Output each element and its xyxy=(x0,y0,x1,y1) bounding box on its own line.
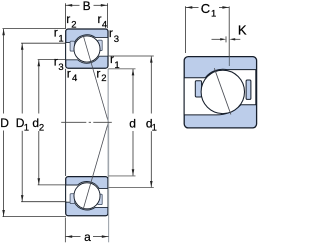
right face line (gray) xyxy=(107,69,109,176)
right view bearing block xyxy=(184,57,256,128)
dimension d xyxy=(108,69,135,176)
cage bar right xyxy=(98,40,103,50)
dimension B xyxy=(65,3,107,28)
svg-text:3: 3 xyxy=(114,34,119,45)
dimension d2 xyxy=(38,60,66,185)
svg-text:r: r xyxy=(67,66,71,80)
svg-text:4: 4 xyxy=(102,20,107,31)
right view cage bar left xyxy=(195,81,201,97)
svg-text:K: K xyxy=(238,22,247,37)
right view ball diagonal xyxy=(214,68,231,114)
svg-text:1: 1 xyxy=(58,33,63,44)
svg-text:d: d xyxy=(129,116,136,130)
dimension K xyxy=(212,36,241,42)
svg-text:4: 4 xyxy=(72,73,77,84)
svg-text:r: r xyxy=(98,12,102,26)
cage bar left xyxy=(70,41,75,51)
svg-text:3: 3 xyxy=(58,62,63,73)
dimension D xyxy=(3,29,67,217)
svg-text:r: r xyxy=(66,12,70,26)
svg-text:2: 2 xyxy=(71,20,76,31)
outer+inner ring block xyxy=(66,29,108,68)
svg-text:1: 1 xyxy=(211,9,216,20)
dimension C1 xyxy=(186,6,230,56)
right view cage bar right xyxy=(246,80,251,99)
svg-text:r: r xyxy=(110,52,114,66)
recess slot line xyxy=(228,57,230,66)
svg-text:1: 1 xyxy=(24,122,29,133)
a extension line (gray) xyxy=(108,122,110,242)
svg-text:r: r xyxy=(109,26,113,40)
svg-text:r: r xyxy=(54,26,58,40)
dimension D1 xyxy=(21,43,66,202)
right view cavity xyxy=(184,69,256,115)
svg-text:1: 1 xyxy=(152,122,157,133)
svg-text:C: C xyxy=(201,1,210,16)
left face line xyxy=(65,69,67,176)
svg-text:2: 2 xyxy=(101,73,106,84)
svg-text:D: D xyxy=(0,116,9,130)
svg-text:B: B xyxy=(83,0,91,13)
bearing cross-section lower half (mirror) xyxy=(66,177,108,216)
bearing cross-section upper half xyxy=(66,29,108,68)
svg-text:r: r xyxy=(54,54,58,68)
centerline axis xyxy=(61,121,112,123)
raceway cavity xyxy=(66,35,108,63)
svg-text:r: r xyxy=(96,66,100,80)
svg-text:2: 2 xyxy=(39,122,44,133)
contact angle line xyxy=(83,36,108,209)
right view ball xyxy=(201,70,244,113)
dimension d1 xyxy=(108,56,154,188)
ball xyxy=(74,36,100,62)
svg-text:a: a xyxy=(84,230,91,244)
dimension a xyxy=(65,218,108,243)
svg-text:1: 1 xyxy=(114,60,119,71)
